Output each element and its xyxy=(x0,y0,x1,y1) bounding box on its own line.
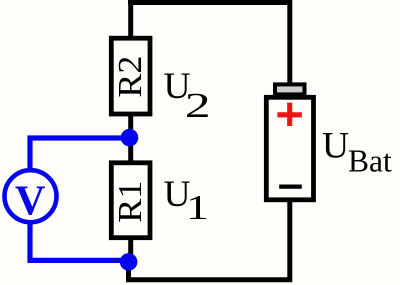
svg-text:1: 1 xyxy=(186,188,209,227)
svg-text:Bat: Bat xyxy=(348,143,392,178)
wire between R2 and node A xyxy=(128,114,133,139)
svg-text:R1: R1 xyxy=(112,181,149,223)
battery cap (positive terminal) xyxy=(275,84,305,94)
wire top horizontal xyxy=(128,0,292,5)
wire right vertical upper (to battery) xyxy=(287,0,292,85)
wire bottom horizontal xyxy=(126,277,292,282)
svg-text:V: V xyxy=(15,178,45,224)
battery plus sign xyxy=(277,103,302,126)
wire left upper vertical xyxy=(128,0,133,37)
wire blue top horizontal xyxy=(28,135,130,140)
node A (junction dot) xyxy=(121,129,139,147)
wire between R1 and node B xyxy=(128,238,133,262)
battery minus sign xyxy=(279,185,302,189)
resistor R2 xyxy=(111,38,150,114)
wire blue bottom horizontal xyxy=(28,258,130,263)
wire blue left upper vertical xyxy=(27,136,32,170)
battery U_Bat body xyxy=(266,97,313,200)
svg-text:U: U xyxy=(322,126,349,167)
wire below node B to bottom rail xyxy=(126,262,131,280)
node B (junction dot) xyxy=(120,253,138,271)
wire between node A and R1 xyxy=(128,137,133,162)
voltmeter V circle xyxy=(5,170,57,222)
resistor R1 xyxy=(111,163,150,238)
wire blue left lower vertical xyxy=(27,223,32,263)
wire right vertical lower (from battery) xyxy=(287,200,292,282)
svg-text:R2: R2 xyxy=(112,56,149,98)
svg-text:2: 2 xyxy=(185,87,211,125)
